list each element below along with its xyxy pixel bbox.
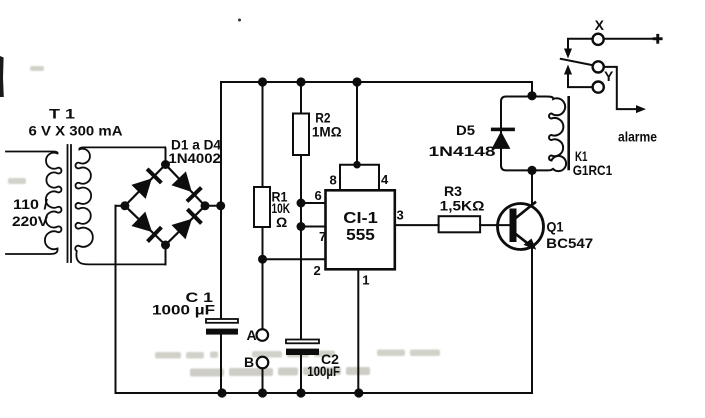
wire R2 bottom through pins 6,7 to C2 [300, 155, 302, 340]
wire pin2 node down to A [262, 259, 264, 329]
svg-text:555: 555 [346, 227, 375, 244]
wire pin 7 [301, 226, 326, 228]
node bridge top [161, 160, 170, 169]
diode D5 [491, 128, 515, 149]
wire R1 top [262, 82, 264, 187]
node ground pin1 [354, 388, 363, 397]
svg-text:alarme: alarme [618, 129, 657, 145]
terminal B [257, 357, 269, 369]
svg-text:1: 1 [362, 272, 369, 287]
ghost bleed-through text line 2 [190, 367, 370, 377]
diode D1 (left-top edge, pointing to top node) [131, 168, 162, 199]
wire D5/relay loop top [501, 97, 532, 171]
node bridge output [216, 201, 225, 210]
svg-text:2: 2 [314, 263, 321, 278]
svg-text:7: 7 [319, 229, 326, 244]
node relay top [527, 91, 536, 100]
svg-text:6 V X 300 mA: 6 V X 300 mA [29, 123, 123, 139]
diode D4 (bottom-right edge, pointing to right node) [171, 208, 202, 239]
resistor R1 [254, 187, 270, 227]
svg-text:4: 4 [381, 172, 389, 187]
diode D3 (left-bottom edge, pointing to bottom node) [131, 212, 162, 243]
node pin6 [297, 199, 306, 208]
wire C2 bottom to ground [300, 355, 302, 393]
node relay bottom [527, 166, 536, 175]
svg-text:Ω: Ω [276, 214, 287, 230]
wire bottom rail [116, 206, 533, 393]
node top rail 555 supply [352, 77, 361, 86]
node ground C1 [217, 388, 226, 397]
svg-text:B: B [244, 354, 254, 370]
relay contact lower terminal [593, 82, 604, 93]
transistor Q1 collector [515, 203, 536, 220]
svg-text:Q1: Q1 [547, 218, 564, 234]
wire pin 1 to ground [357, 269, 359, 393]
node bridge bottom [161, 241, 170, 250]
scan artifact left edge bar [0, 56, 4, 97]
wire X left with down arrow [568, 39, 593, 50]
wire pin 6 [301, 202, 326, 204]
wire pin 3 [395, 224, 439, 226]
transformer T1 core [68, 145, 72, 262]
node bridge left [120, 201, 129, 210]
svg-text:A: A [247, 327, 257, 343]
wire Q1 emitter to ground [531, 247, 533, 393]
svg-text:6: 6 [315, 188, 322, 203]
node top rail R2 [296, 77, 305, 86]
transistor Q1 base bar [510, 209, 517, 243]
node ground C2 [296, 388, 305, 397]
svg-text:BC547: BC547 [546, 235, 593, 251]
svg-text:G1RC1: G1RC1 [573, 162, 613, 178]
diode D2 (top-right edge, pointing to right node) [171, 171, 202, 202]
svg-text:110 /: 110 / [13, 196, 48, 212]
relay K1 coil [532, 97, 566, 172]
node pin2/R1/A [258, 255, 267, 264]
label plus [653, 34, 663, 44]
wire X right to + [604, 38, 653, 40]
wire +V vertical (bridge to C1) [220, 82, 222, 319]
svg-text:1N4002: 1N4002 [168, 150, 221, 166]
svg-text:8: 8 [330, 173, 337, 188]
transistor Q1 emitter with arrow [515, 233, 532, 246]
wire B to ground [262, 368, 264, 393]
bridge rectifier D1-D4 diamond wires [125, 165, 205, 246]
transistor Q1 circle [498, 204, 544, 250]
wire top rail to relay [531, 82, 533, 96]
svg-text:1000 µF: 1000 µF [152, 302, 216, 318]
svg-text:1MΩ: 1MΩ [312, 124, 342, 140]
relay K1 core bar [567, 97, 570, 169]
svg-text:3: 3 [397, 207, 404, 222]
wire 555 pins 8-4 top bracket [340, 165, 379, 191]
node top rail R1 [258, 77, 267, 86]
wire top rail [221, 81, 532, 83]
svg-text:CI-1: CI-1 [343, 210, 378, 227]
transformer T1 primary winding [6, 152, 61, 255]
svg-text:1N4148: 1N4148 [429, 143, 496, 159]
relay contact X terminal [593, 34, 604, 45]
ghost marks upper left area [8, 66, 44, 184]
wire pin 2 [263, 258, 326, 260]
op-amp U1 555 IC body [326, 190, 395, 269]
node pin7 [297, 222, 306, 231]
transformer T1 secondary winding [75, 147, 165, 264]
resistor R2 [293, 114, 309, 156]
wire relay to Q1 collector [531, 170, 533, 204]
svg-text:220V: 220V [12, 213, 49, 229]
svg-text:D5: D5 [456, 122, 475, 138]
svg-text:T 1: T 1 [49, 106, 75, 122]
scan artifact speck [238, 19, 241, 22]
node bridge right [201, 201, 210, 210]
node 555 bracket [353, 161, 361, 169]
capacitor C2 plates [286, 340, 319, 356]
node ground B [258, 388, 267, 397]
svg-text:Y: Y [604, 68, 614, 84]
terminal A [257, 329, 269, 341]
relay contact arm [561, 59, 593, 65]
wire R2 top [300, 82, 302, 114]
resistor R3 [439, 216, 481, 232]
wire 555 supply from top rail [356, 82, 358, 165]
ghost bleed-through text line 1 [155, 350, 440, 359]
wire R1 bottom to pin2 node [262, 227, 264, 259]
wire lower contact with up arrow [568, 73, 593, 87]
svg-text:100µF: 100µF [307, 363, 340, 379]
wire R3 to Q1 base [480, 224, 509, 226]
wire secondary bottom to bridge [165, 245, 167, 264]
svg-text:1,5KΩ: 1,5KΩ [440, 198, 485, 214]
relay contact Y terminal (common) [593, 61, 604, 72]
capacitor C1 plates [206, 319, 238, 335]
wire bridge left node to ground drop [116, 205, 125, 207]
wire Y to alarme arrow [604, 67, 637, 109]
wire secondary top to bridge [164, 147, 167, 164]
svg-text:X: X [595, 17, 605, 33]
wire bridge right node to +V line [205, 205, 221, 207]
